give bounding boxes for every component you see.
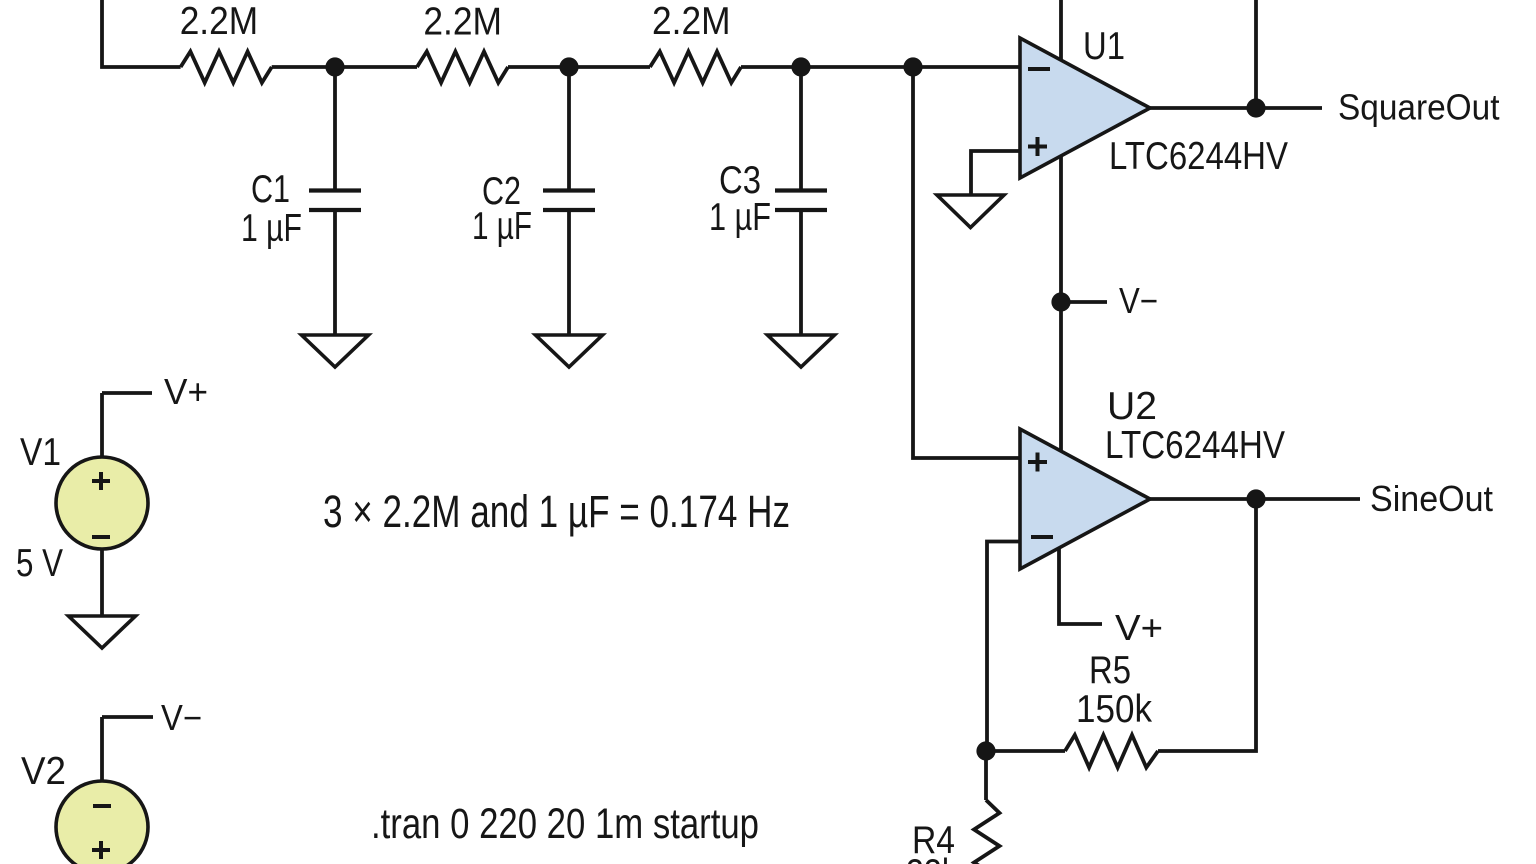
svg-text:V1: V1	[20, 431, 61, 474]
wire R2 to node B	[508, 65, 650, 69]
U1 minus pin mark	[1028, 67, 1050, 71]
ground (V1)	[69, 616, 136, 648]
resistor R2 2.2M	[417, 52, 508, 83]
wire SineOut feedback loop	[1158, 499, 1256, 751]
V2 minus mark	[93, 804, 111, 808]
capacitor C3	[775, 191, 827, 211]
svg-text:SquareOut: SquareOut	[1338, 87, 1500, 128]
node junction R4/R5	[976, 741, 995, 760]
ground (C2)	[536, 335, 603, 367]
svg-text:1 µF: 1 µF	[241, 207, 302, 250]
op-amp U1	[1020, 38, 1150, 178]
node junction C	[791, 57, 810, 76]
voltage source V2	[56, 781, 148, 864]
wire node B down to C2	[567, 67, 571, 189]
wire SquareOut vertical feedback	[1254, 0, 1258, 108]
svg-text:V2: V2	[21, 750, 66, 793]
svg-text:2.2M: 2.2M	[423, 1, 502, 44]
node junction SineOut	[1246, 489, 1265, 508]
wire U1 top supply stub and V- rail down to U2	[1059, 0, 1063, 455]
node junction B	[559, 57, 578, 76]
svg-text:3 × 2.2M and 1 µF = 0.174 Hz: 3 × 2.2M and 1 µF = 0.174 Hz	[323, 486, 790, 537]
V1 plus mark	[92, 472, 110, 490]
resistor R1 2.2M	[181, 52, 272, 83]
wire R1 to node A	[272, 65, 417, 69]
wire node A down to C1	[333, 67, 337, 189]
svg-text:U2: U2	[1107, 385, 1157, 428]
wire node C down to C3	[799, 67, 803, 189]
wire node D down to U2 plus input	[913, 67, 1020, 458]
svg-text:.tran 0 220 20 1m startup: .tran 0 220 20 1m startup	[371, 800, 759, 848]
voltage source V1	[56, 457, 148, 549]
svg-text:LTC6244HV: LTC6244HV	[1109, 135, 1288, 178]
svg-text:2.2M: 2.2M	[180, 0, 258, 43]
node junction V-	[1051, 292, 1070, 311]
wire V- stub	[1061, 300, 1107, 304]
U2 plus pin mark	[1028, 453, 1047, 472]
node junction D	[903, 57, 922, 76]
capacitor C1	[309, 191, 361, 211]
node junction A	[325, 57, 344, 76]
wire V2 top lead	[100, 717, 104, 781]
wire V- stub (V2)	[102, 715, 153, 719]
wire U2 minus input	[987, 542, 1020, 752]
svg-text:C1: C1	[251, 168, 290, 211]
wire node E to R5	[986, 749, 1065, 753]
wire V+ stub (V1)	[102, 391, 152, 395]
ground (C1)	[302, 335, 369, 367]
svg-text:U1: U1	[1083, 25, 1125, 68]
svg-text:5 V: 5 V	[16, 542, 63, 585]
svg-text:SineOut: SineOut	[1370, 478, 1493, 519]
svg-text:1 µF: 1 µF	[709, 196, 771, 239]
op-amp U2	[1020, 429, 1150, 569]
node junction SquareOut	[1246, 98, 1265, 117]
wire left input elbow	[102, 0, 181, 67]
U1 plus pin mark	[1028, 137, 1047, 156]
U2 minus pin mark	[1031, 535, 1053, 539]
resistor R5 150k	[1065, 735, 1158, 768]
svg-text:V−: V−	[161, 697, 202, 738]
wire R3 to U1 minus input	[741, 65, 1020, 69]
wire V1 top lead	[100, 393, 104, 457]
svg-text:1 µF: 1 µF	[472, 205, 532, 248]
resistor R4 (clipped at bottom)	[984, 751, 988, 800]
svg-text:33k: 33k	[906, 852, 958, 864]
svg-text:V−: V−	[1119, 280, 1158, 321]
resistor R3 2.2M	[650, 52, 741, 83]
svg-text:LTC6244HV: LTC6244HV	[1105, 424, 1285, 467]
wire V1 bottom lead	[100, 549, 104, 616]
V1 minus mark	[92, 535, 110, 539]
svg-text:2.2M: 2.2M	[652, 0, 731, 43]
wire U1 output to SquareOut	[1150, 106, 1322, 110]
capacitor C2	[543, 191, 595, 211]
wire U1 plus input to ground	[971, 151, 1020, 195]
ground (C3)	[768, 335, 835, 367]
svg-text:R5: R5	[1089, 649, 1131, 692]
wire U2 bottom supply stub to V+	[1059, 540, 1102, 624]
svg-text:V+: V+	[1115, 607, 1163, 648]
svg-text:V+: V+	[164, 371, 208, 412]
svg-text:150k: 150k	[1076, 688, 1152, 731]
ground (U1 plus input)	[937, 195, 1004, 228]
V2 plus mark	[92, 841, 110, 859]
wire U2 output to SineOut	[1150, 497, 1360, 501]
